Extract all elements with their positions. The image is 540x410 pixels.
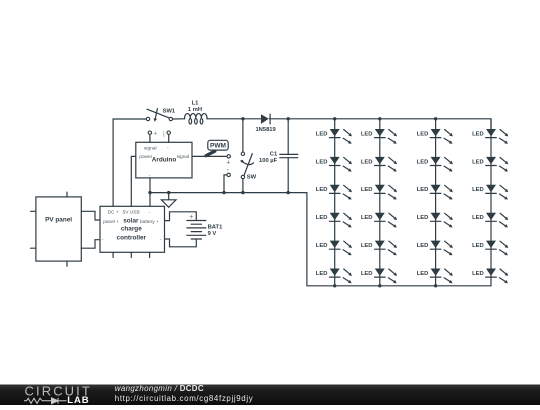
LED 4 (col 1, row 4) <box>316 213 352 228</box>
battery BAT1 <box>187 214 223 239</box>
switch SW1 <box>146 109 176 122</box>
terminal + of SW control <box>226 155 230 167</box>
svg-text:C1: C1 <box>270 152 278 158</box>
svg-text:http://circuitlab.com/cg84fzpj: http://circuitlab.com/cg84fzpjj9djy <box>115 394 254 403</box>
svg-text:panel +: panel + <box>103 219 119 225</box>
svg-text:LED: LED <box>472 271 484 277</box>
svg-text:LED: LED <box>361 187 373 193</box>
switch SW (voltage controlled) <box>240 152 257 180</box>
LED 21 (col 4, row 3) <box>472 185 508 200</box>
ground symbol <box>161 193 176 208</box>
LED 16 (col 3, row 4) <box>417 213 453 228</box>
diode D1 1N5819 <box>255 114 276 133</box>
node: bus junction at SW control - <box>222 191 225 194</box>
svg-text:LED: LED <box>361 271 373 277</box>
wire LED column 3 <box>435 119 437 286</box>
wire controller battery+ to BAT1 top <box>165 212 197 221</box>
wire PV- to controller - <box>81 240 100 249</box>
svg-text:+: + <box>153 131 157 138</box>
wire SW to bottom bus <box>242 179 244 193</box>
svg-text:1N5819: 1N5819 <box>255 127 276 133</box>
svg-text:SW: SW <box>247 174 257 180</box>
terminal - of SW control <box>227 167 231 176</box>
LED 22 (col 4, row 4) <box>472 213 508 228</box>
node: bottom bus junction col 3 <box>434 284 437 287</box>
svg-text:+: + <box>189 214 193 221</box>
Arduino U1 <box>136 130 192 178</box>
svg-text:LED: LED <box>472 159 484 165</box>
svg-text:LED: LED <box>417 243 429 249</box>
node: bus junction at C1 <box>287 191 290 194</box>
svg-text:battery +: battery + <box>140 219 159 225</box>
svg-text:BAT1: BAT1 <box>208 224 223 230</box>
svg-text:Arduino: Arduino <box>152 156 177 163</box>
svg-text:5V USB: 5V USB <box>123 209 140 215</box>
svg-text:solar: solar <box>123 217 139 224</box>
svg-text:controller: controller <box>117 234 147 241</box>
svg-text:100 µF: 100 µF <box>259 158 278 164</box>
wire BAT1 bottom to controller - <box>165 239 197 247</box>
LED 19 (col 4, row 1) <box>472 129 508 144</box>
LED 3 (col 1, row 3) <box>316 185 352 200</box>
wire from SW1 left terminal down to controller DC+ pin <box>113 119 146 206</box>
svg-text:LED: LED <box>361 131 373 137</box>
capacitor C1 <box>259 152 298 164</box>
svg-text:|: | <box>163 130 165 137</box>
LED 1 (col 1, row 1) <box>316 129 352 144</box>
LED 10 (col 2, row 4) <box>361 213 397 228</box>
inductor L1 <box>185 101 208 124</box>
LED 17 (col 3, row 5) <box>417 241 453 256</box>
wire top bus to SW <box>242 119 244 152</box>
solar charge controller block <box>100 206 165 257</box>
svg-text:1 mH: 1 mH <box>188 107 202 113</box>
svg-text:signal: signal <box>177 154 190 160</box>
svg-text:LED: LED <box>316 187 328 193</box>
PV panel block <box>31 192 82 266</box>
LED 7 (col 2, row 1) <box>361 129 397 144</box>
svg-text:LED: LED <box>472 131 484 137</box>
wire LED column 4 <box>490 119 492 286</box>
wire L1 to diode <box>207 118 261 120</box>
svg-text:LED: LED <box>472 187 484 193</box>
node: junction L1/SW branch <box>241 117 244 120</box>
LED 23 (col 4, row 5) <box>472 241 508 256</box>
node: bus junction at ground <box>167 191 170 194</box>
LED 13 (col 3, row 1) <box>417 129 453 144</box>
wire: ground bus from Arduino pin to LED return <box>150 193 335 286</box>
wire Arduino power pin to controller 5V USB pin <box>131 156 136 206</box>
node: bottom bus junction col 1 <box>333 284 336 287</box>
LED 9 (col 2, row 3) <box>361 185 397 200</box>
LED 15 (col 3, row 3) <box>417 185 453 200</box>
svg-text:9 V: 9 V <box>208 231 217 237</box>
svg-text:LED: LED <box>472 215 484 221</box>
svg-text:LED: LED <box>417 187 429 193</box>
svg-text:wangzhongmin / DCDC: wangzhongmin / DCDC <box>115 384 204 393</box>
wire C1 to bottom bus <box>287 158 289 193</box>
wire LED column 1 <box>334 119 336 286</box>
svg-text:LED: LED <box>417 159 429 165</box>
svg-text:LED: LED <box>316 271 328 277</box>
svg-text:power: power <box>139 154 152 160</box>
LED 12 (col 2, row 6) <box>361 269 397 284</box>
wire top bus to C1 <box>287 119 289 155</box>
node: bus junction at Arduino bottom <box>148 191 151 194</box>
node: bottom bus junction col 2 <box>378 284 381 287</box>
LED 24 (col 4, row 6) <box>472 269 508 284</box>
svg-text:+: + <box>226 160 230 167</box>
node: top bus junction col 2 <box>378 117 381 120</box>
LED 14 (col 3, row 2) <box>417 157 453 172</box>
wire Arduino signal pin to SW + control terminal <box>192 155 227 157</box>
CircuitLab logo <box>24 384 92 406</box>
svg-text:charge: charge <box>121 225 142 232</box>
wire PV+ to controller panel+ <box>81 211 100 220</box>
node: top bus junction col 1 <box>333 117 336 120</box>
svg-text:LED: LED <box>361 243 373 249</box>
PWM flag <box>205 140 228 156</box>
svg-text:LED: LED <box>316 131 328 137</box>
svg-text:LED: LED <box>316 159 328 165</box>
svg-text:signal: signal <box>144 145 157 151</box>
svg-text:DC +: DC + <box>108 209 119 215</box>
wire Arduino bottom pin down through bus to controller top - pin <box>149 178 151 206</box>
svg-text:PV panel: PV panel <box>45 217 72 224</box>
wire LED column 2 <box>379 119 381 286</box>
svg-text:LED: LED <box>417 131 429 137</box>
svg-text:LAB: LAB <box>67 395 89 405</box>
node: top bus junction col 3 <box>434 117 437 120</box>
svg-text:SW1: SW1 <box>163 109 176 115</box>
wire SW1 to L1 <box>173 118 185 120</box>
LED 6 (col 1, row 6) <box>316 269 352 284</box>
wire diode to LED array top bus <box>269 119 491 129</box>
svg-text:LED: LED <box>316 215 328 221</box>
node: junction diode/C1 branch <box>287 117 290 120</box>
svg-text:PWM: PWM <box>210 143 226 150</box>
svg-text:LED: LED <box>417 271 429 277</box>
svg-text:LED: LED <box>361 159 373 165</box>
svg-text:L1: L1 <box>192 101 200 107</box>
LED 20 (col 4, row 2) <box>472 157 508 172</box>
svg-text:LED: LED <box>417 215 429 221</box>
svg-text:LED: LED <box>361 215 373 221</box>
wire LED bottom bus <box>335 285 491 287</box>
LED 18 (col 3, row 6) <box>417 269 453 284</box>
svg-text:LED: LED <box>316 243 328 249</box>
node: bus junction at SW <box>241 191 244 194</box>
svg-text:LED: LED <box>472 243 484 249</box>
LED 8 (col 2, row 2) <box>361 157 397 172</box>
LED 11 (col 2, row 5) <box>361 241 397 256</box>
LED 5 (col 1, row 5) <box>316 241 352 256</box>
LED 2 (col 1, row 2) <box>316 157 352 172</box>
wire - control terminal to ground bus <box>224 175 227 193</box>
